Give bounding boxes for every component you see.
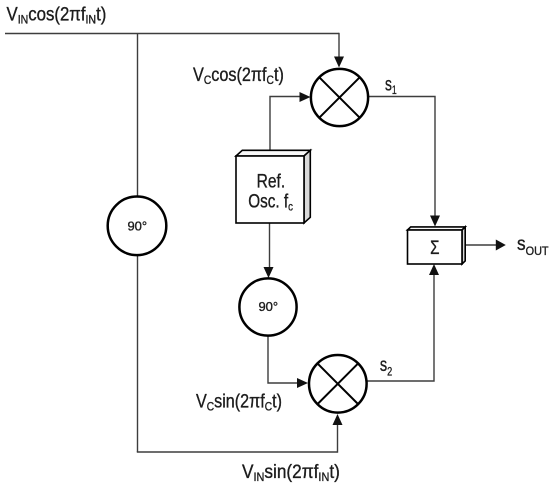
svg-text:s1: s1 bbox=[385, 73, 397, 97]
svg-text:VCsin(2πfCt): VCsin(2πfCt) bbox=[196, 390, 282, 413]
svg-text:VINcos(2πfINt): VINcos(2πfINt) bbox=[7, 4, 107, 27]
svg-text:VINsin(2πfINt): VINsin(2πfINt) bbox=[242, 461, 340, 484]
svg-text:90°: 90° bbox=[127, 219, 147, 234]
svg-text:s2: s2 bbox=[380, 354, 392, 379]
svg-text:Σ: Σ bbox=[430, 236, 439, 258]
svg-text:sOUT: sOUT bbox=[517, 233, 549, 258]
svg-text:Osc. fc: Osc. fc bbox=[248, 190, 293, 214]
svg-text:90°: 90° bbox=[258, 299, 278, 314]
svg-text:VCcos(2πfCt): VCcos(2πfCt) bbox=[193, 64, 284, 87]
svg-text:Ref.: Ref. bbox=[257, 170, 286, 192]
